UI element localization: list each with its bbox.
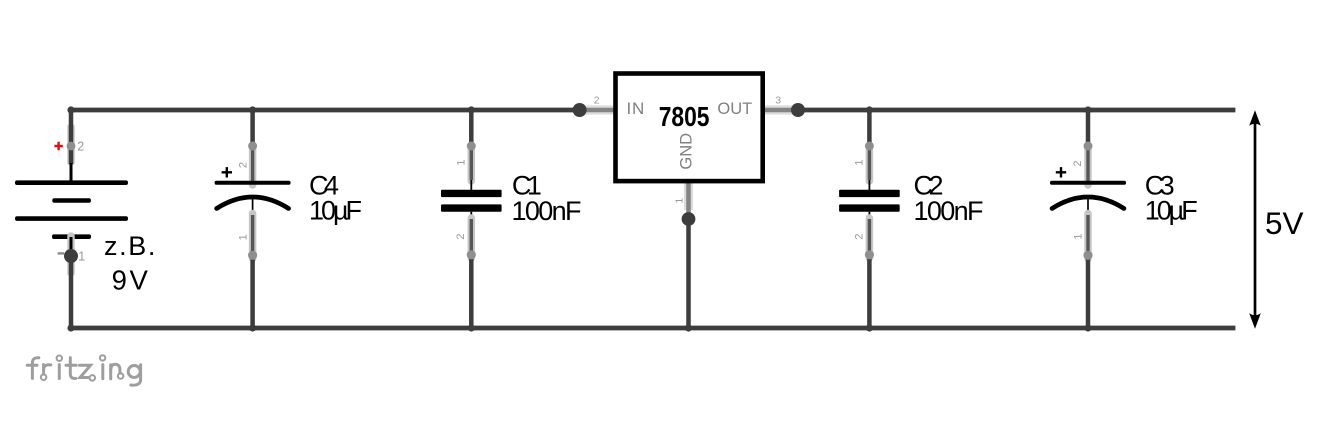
svg-text:1: 1 xyxy=(455,159,467,165)
label 5V xyxy=(1265,205,1304,241)
C3 curved plate xyxy=(1052,197,1124,209)
C3 plus sign xyxy=(1056,167,1066,177)
node junction gnd bottom xyxy=(685,324,692,331)
svg-text:1: 1 xyxy=(1073,234,1085,240)
C2 label xyxy=(914,171,944,201)
battery plate short mid xyxy=(52,198,91,203)
U1 pin3 stub xyxy=(763,108,798,113)
node C2 bendpoint bottom xyxy=(865,250,874,259)
fritzing logo xyxy=(27,355,140,385)
svg-text:10µF: 10µF xyxy=(1145,196,1198,226)
U1 pin1 terminal band xyxy=(684,182,693,210)
wire top rail left xyxy=(71,108,580,113)
C2 bottom pin line xyxy=(868,212,870,222)
capacitor C3 xyxy=(1050,110,1198,328)
logo letter i2 xyxy=(100,355,105,379)
node C1 bendpoint top xyxy=(467,142,476,151)
svg-text:2: 2 xyxy=(594,94,600,106)
wire C3 bottom xyxy=(1084,214,1092,329)
node battery pin 1 joint xyxy=(64,249,78,263)
C3 positive plate xyxy=(1050,181,1126,185)
node junction battery top xyxy=(67,106,74,113)
U1 pin3 terminal band xyxy=(764,105,793,114)
C2 pin label 1 xyxy=(854,159,866,165)
logo letter i xyxy=(57,356,62,379)
C4 positive plate xyxy=(215,181,291,185)
wire battery bottom lead xyxy=(67,236,75,328)
svg-text:2: 2 xyxy=(77,140,84,154)
svg-text:100nF: 100nF xyxy=(914,196,984,226)
C2 plate bottom xyxy=(839,204,900,211)
node C1 bendpoint bottom xyxy=(467,250,476,259)
node U1 pin2 joint xyxy=(573,103,587,117)
node C3 bendpoint top xyxy=(1084,142,1093,151)
C3 value 10uF xyxy=(1145,196,1198,226)
svg-text:1: 1 xyxy=(674,198,686,204)
U1 pin label 2 xyxy=(594,94,600,106)
C2 pin label 2 xyxy=(853,234,865,240)
svg-text:5V: 5V xyxy=(1265,205,1304,241)
C1 pin label 1 xyxy=(455,159,467,165)
battery positive stub xyxy=(70,163,73,181)
wire C2 bottom xyxy=(866,218,874,328)
node junction C4 top xyxy=(249,106,256,113)
wire bottom rail xyxy=(71,326,1235,331)
C2 value 100nF xyxy=(914,196,984,226)
svg-text:9V: 9V xyxy=(112,265,151,296)
C4 bottom pin line xyxy=(252,198,254,218)
wire C3 top xyxy=(1084,110,1092,185)
U1 pin name OUT xyxy=(717,100,752,118)
C4 value 10uF xyxy=(309,196,362,226)
node C3 bendpoint bottom xyxy=(1083,251,1092,260)
logo letter n xyxy=(111,364,124,379)
C3 bottom pin line xyxy=(1087,198,1089,218)
U1 pin name GND xyxy=(678,133,696,170)
logo letter r xyxy=(41,365,51,380)
voltage regulator U1 7805 xyxy=(573,74,805,329)
battery minus sign xyxy=(58,252,64,254)
node junction C2 bottom xyxy=(866,324,873,331)
U1 pin name IN xyxy=(627,99,646,118)
node junction C1 top xyxy=(468,106,475,113)
U1 pin label 3 xyxy=(775,95,781,107)
node junction C3 bottom xyxy=(1084,324,1091,331)
C2 plate top xyxy=(839,190,900,197)
C1 label xyxy=(512,171,542,201)
wire C4 top xyxy=(249,110,257,185)
node junction battery bottom xyxy=(67,324,74,331)
wire C2 top xyxy=(866,110,874,181)
C3 pin label 2 xyxy=(1072,160,1084,166)
battery plus sign xyxy=(54,142,62,150)
wire C1 top xyxy=(468,110,476,181)
svg-text:z.B.: z.B. xyxy=(104,231,157,261)
C4 plus sign xyxy=(222,167,232,177)
U1 label 7805 xyxy=(659,101,710,132)
U1 pin2 stub xyxy=(580,108,616,113)
C1 top pin line xyxy=(470,180,472,190)
svg-text:3: 3 xyxy=(775,95,781,107)
battery pin label 2 xyxy=(77,140,84,154)
svg-text:1: 1 xyxy=(238,234,250,240)
node junction C1 bottom xyxy=(468,324,475,331)
node C4 bendpoint top xyxy=(248,142,257,151)
svg-text:2: 2 xyxy=(853,234,865,240)
C3 label xyxy=(1145,171,1175,201)
logo letter f xyxy=(27,358,39,379)
svg-text:GND: GND xyxy=(678,133,696,170)
wire C4 bottom xyxy=(249,214,257,329)
battery plate short bottom xyxy=(52,234,91,239)
C1 plate top xyxy=(441,190,502,197)
battery BT1 xyxy=(15,110,157,328)
capacitor C4 xyxy=(215,110,362,328)
C2 top pin line xyxy=(868,180,870,190)
output voltage arrow xyxy=(1249,110,1261,328)
svg-text:1: 1 xyxy=(78,249,85,263)
C1 value 100nF xyxy=(512,196,582,226)
svg-text:2: 2 xyxy=(238,162,250,168)
U1 pin1 stub xyxy=(686,181,691,219)
svg-text:1: 1 xyxy=(854,159,866,165)
C1 pin label 2 xyxy=(455,234,467,240)
battery value 9V xyxy=(112,265,151,296)
logo letter g xyxy=(128,365,140,385)
capacitor C1 xyxy=(441,110,582,328)
U1 body box xyxy=(616,74,763,182)
wire top rail right xyxy=(798,108,1235,113)
node C4 bendpoint bottom xyxy=(248,251,257,260)
battery plate long top xyxy=(15,180,128,185)
battery pin label 1 xyxy=(78,249,85,263)
battery plate long mid xyxy=(15,216,128,221)
U1 pin2 terminal band xyxy=(586,105,615,114)
node U1 pin3 joint xyxy=(791,103,805,117)
capacitor C2 xyxy=(839,110,983,328)
svg-text:OUT: OUT xyxy=(717,100,752,118)
logo letter z xyxy=(80,365,96,380)
svg-text:10µF: 10µF xyxy=(309,196,362,226)
battery label z.B. xyxy=(104,231,157,261)
wire gnd down xyxy=(686,219,691,328)
node U1 pin1 joint xyxy=(682,212,696,226)
C4 pin label 2 xyxy=(238,162,250,168)
svg-text:2: 2 xyxy=(1072,160,1084,166)
C4 label xyxy=(309,171,339,201)
node junction C2 top xyxy=(866,106,873,113)
wire battery top lead xyxy=(67,110,75,164)
node junction C3 top xyxy=(1084,106,1091,113)
C1 bottom pin line xyxy=(470,212,472,222)
svg-text:2: 2 xyxy=(455,234,467,240)
C4 pin label 1 xyxy=(238,234,250,240)
C1 plate bottom xyxy=(441,204,502,211)
node C2 bendpoint top xyxy=(865,142,874,151)
svg-text:IN: IN xyxy=(627,99,646,118)
node battery bendpoint pin 2 xyxy=(67,142,76,151)
svg-text:7805: 7805 xyxy=(659,101,710,132)
C4 curved plate xyxy=(217,197,289,209)
node junction C4 bottom xyxy=(249,324,256,331)
wire C1 bottom xyxy=(468,218,476,328)
svg-text:100nF: 100nF xyxy=(512,196,582,226)
U1 pin label 1 xyxy=(674,198,686,204)
C3 pin label 1 xyxy=(1073,234,1085,240)
logo letter t xyxy=(66,358,76,379)
